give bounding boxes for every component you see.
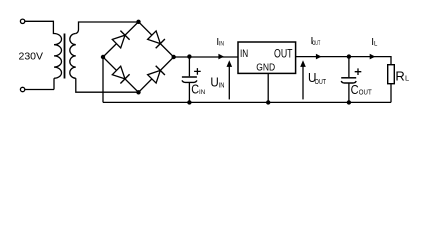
wire bottom-left (25, 78, 54, 89)
wire top-left (25, 21, 54, 33)
junction dot GND pin (266, 100, 270, 104)
svg-text:GND: GND (256, 62, 275, 74)
junction dot bridge right (172, 55, 176, 59)
capacitor C_OUT plates (341, 77, 356, 79)
terminal top-left (20, 19, 24, 23)
svg-text:C: C (191, 82, 199, 97)
svg-text:IN: IN (219, 80, 225, 89)
voltage arrowhead U_OUT (300, 60, 306, 67)
junction dot C_IN top (187, 54, 191, 58)
junction dot C_OUT top (347, 54, 351, 58)
transformer secondary winding (70, 34, 76, 79)
wire DC plus rail to regulator (174, 56, 238, 58)
svg-text:OUT: OUT (274, 49, 293, 61)
wire secondary top lead to bridge (76, 22, 139, 34)
plus sign C_IN (194, 68, 201, 75)
regulator GND pin wire (267, 74, 269, 103)
capacitor C_IN bottom lead (188, 82, 190, 102)
wire bridge minus to ground rail (102, 57, 104, 102)
svg-text:C: C (351, 82, 359, 97)
svg-text:IN: IN (199, 89, 205, 96)
capacitor C_IN plates (182, 76, 197, 78)
voltage arrow U_IN (228, 64, 230, 99)
regulator U1 box (238, 42, 296, 73)
bridge diamond edges (103, 22, 174, 93)
svg-text:R: R (395, 69, 404, 84)
svg-text:OUT: OUT (359, 90, 373, 97)
wire secondary bottom lead to bridge AC node (76, 78, 139, 92)
junction dot bridge bottom (136, 90, 140, 94)
junction dot C_IN bottom (187, 100, 191, 104)
diode D4 lower-right (148, 70, 161, 83)
resistor R_L box (388, 65, 395, 84)
capacitor C_IN top lead (188, 57, 190, 77)
current arrowhead I_IN (218, 54, 224, 60)
svg-text:OUT: OUT (312, 41, 320, 47)
wire regulator OUT rail (296, 57, 391, 65)
junction dot bridge top (136, 20, 140, 24)
diode D3 lower-left (112, 66, 125, 79)
svg-text:U: U (210, 74, 218, 89)
plus sign C_OUT (355, 68, 362, 75)
junction dot C_OUT bottom (347, 100, 351, 104)
svg-text:IN: IN (240, 48, 248, 60)
current arrowhead I_OUT (316, 54, 322, 60)
terminal bottom-left (20, 87, 24, 91)
current arrowhead I_L (370, 54, 376, 60)
transformer core (64, 34, 66, 79)
diode D1 upper-left (112, 35, 125, 48)
svg-text:L: L (405, 74, 409, 83)
voltage arrowhead U_IN (227, 60, 233, 67)
capacitor C_OUT bottom lead (348, 83, 350, 102)
voltage arrow U_OUT (302, 64, 304, 99)
resistor R_L bottom lead (390, 84, 392, 103)
junction dot bridge left (101, 55, 105, 59)
svg-text:230V: 230V (19, 51, 44, 63)
svg-text:OUT: OUT (315, 79, 327, 86)
ground rail (103, 101, 391, 103)
diode D2 upper-right (148, 31, 161, 44)
capacitor C_OUT top lead (348, 57, 350, 78)
transformer T1 primary winding (54, 34, 62, 79)
svg-text:L: L (374, 42, 378, 48)
svg-text:IN: IN (219, 42, 224, 48)
